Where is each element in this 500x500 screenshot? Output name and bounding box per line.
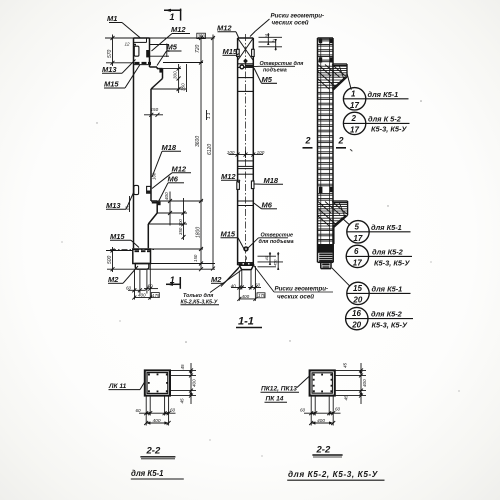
svg-text:20: 20 [352, 295, 362, 304]
svg-text:К5-3, К5-У: К5-3, К5-У [371, 124, 407, 133]
plate M6 lower (dark) [158, 202, 161, 206]
dim 100 100 (mid) [229, 151, 264, 158]
title для К5-1 [131, 469, 184, 479]
svg-text:M2: M2 [108, 275, 119, 284]
svg-text:17: 17 [353, 234, 362, 243]
svg-text:40: 40 [231, 283, 237, 288]
svg-text:M5: M5 [262, 75, 273, 84]
svg-text:500: 500 [107, 255, 113, 264]
section square K5-2/3/4 [310, 370, 335, 395]
svg-text:17: 17 [350, 101, 359, 110]
mid plates [237, 182, 240, 190]
svg-text:300: 300 [173, 71, 178, 79]
svg-text:для К5-1: для К5-1 [371, 223, 402, 232]
section square K5-1 [145, 370, 170, 395]
svg-text:M15: M15 [110, 232, 125, 241]
lower corbel hatch marks [152, 202, 157, 204]
svg-text:17: 17 [353, 258, 362, 267]
svg-text:1800: 1800 [196, 227, 202, 238]
svg-text:60: 60 [148, 284, 154, 289]
label M12 (left view lower) [152, 165, 191, 189]
label M5 (mid) [254, 68, 277, 84]
dim ticks near cap plates [150, 44, 170, 58]
bottom dims of middle view [231, 266, 261, 301]
svg-text:400: 400 [242, 294, 250, 299]
footer tip [135, 264, 149, 270]
svg-text:175: 175 [152, 293, 160, 298]
svg-text:M13: M13 [106, 201, 121, 210]
svg-text:17: 17 [350, 125, 359, 134]
svg-text:M18: M18 [264, 176, 279, 185]
svg-text:1-1: 1-1 [238, 316, 254, 328]
svg-text:M15: M15 [223, 47, 238, 56]
svg-text:45: 45 [180, 364, 185, 370]
svg-text:2: 2 [338, 136, 344, 146]
label M6 (mid) [254, 201, 277, 210]
cap plate M12 (dark) [146, 50, 150, 57]
svg-text:400: 400 [164, 192, 169, 200]
section mark 1 (top) [164, 9, 181, 22]
bottom dims of left section [139, 396, 176, 426]
svg-text:20: 20 [351, 321, 361, 330]
middle column edges [238, 38, 254, 265]
cell lines [238, 77, 254, 79]
hatch band below cap [135, 62, 152, 64]
svg-text:M12: M12 [221, 172, 236, 181]
svg-text:2-2: 2-2 [146, 446, 161, 457]
svg-text:150: 150 [151, 107, 159, 112]
svg-text:К5-3, К5-У: К5-3, К5-У [372, 321, 408, 330]
label M12 (top) [152, 25, 191, 51]
section mark 1 (bottom) [166, 275, 181, 289]
dim 500 (footer) [106, 247, 136, 272]
svg-text:400: 400 [362, 379, 367, 387]
svg-text:15: 15 [353, 284, 362, 293]
svg-text:450: 450 [273, 259, 277, 266]
svg-text:60: 60 [255, 282, 261, 287]
svg-text:для К5-1: для К5-1 [368, 90, 399, 99]
svg-text:400: 400 [191, 379, 196, 387]
svg-text:для К5-2: для К5-2 [371, 310, 403, 319]
svg-text:16: 16 [352, 309, 361, 318]
svg-text:100: 100 [257, 150, 265, 155]
dims 400 350 300 near lower corbel [168, 192, 186, 241]
svg-text:Только для: Только для [183, 293, 214, 299]
svg-text:2: 2 [305, 136, 311, 146]
svg-text:ПК12, ПК13: ПК12, ПК13 [261, 386, 297, 393]
svg-text:для К5-2: для К5-2 [372, 247, 404, 256]
svg-text:2-2: 2-2 [316, 445, 331, 456]
svg-text:60: 60 [126, 286, 132, 291]
striped block [319, 254, 332, 261]
svg-text:для К5-1: для К5-1 [131, 469, 164, 478]
lifting hole (bottom) [244, 247, 248, 251]
label M13 (lower) [106, 192, 134, 211]
svg-text:2: 2 [351, 114, 357, 123]
label M2 (left) [108, 266, 138, 284]
svg-text:Риски геометри-: Риски геометри- [271, 13, 325, 20]
ladder rungs upper [318, 39, 334, 61]
bottom dims of right section [304, 396, 341, 426]
svg-text:К5-3, К5-У: К5-3, К5-У [374, 258, 410, 267]
scan specks [61, 100, 459, 456]
svg-text:60: 60 [170, 407, 176, 412]
svg-text:6120: 6120 [207, 144, 213, 155]
svg-text:400: 400 [317, 418, 325, 424]
label M6 (left view) [159, 175, 185, 202]
svg-text:100: 100 [227, 150, 235, 155]
M6 cell lines [238, 200, 254, 202]
outer dim line [212, 35, 214, 269]
svg-text:M13: M13 [102, 65, 117, 74]
риски text (top right) [250, 13, 324, 37]
hatch band [238, 63, 254, 65]
dark embedded block [318, 244, 334, 253]
title 1-1 [236, 316, 262, 328]
label M18 (mid) [255, 176, 284, 185]
callout 15/20 [332, 268, 411, 305]
corbel 1 fill lines [318, 66, 347, 88]
label ЛК 11 [108, 381, 145, 390]
svg-text:350 300: 350 300 [178, 219, 183, 235]
footer centerline [110, 249, 156, 251]
svg-text:60: 60 [335, 407, 341, 412]
svg-text:12: 12 [125, 42, 131, 47]
corbel 2 fill lines [318, 204, 348, 226]
callout 6/17 [346, 245, 412, 267]
svg-text:400: 400 [138, 293, 146, 298]
label M1 [107, 14, 140, 38]
bottom tip of right column [318, 262, 334, 268]
svg-text:1: 1 [351, 89, 356, 98]
svg-text:для К5-2, К5-3, К5-У: для К5-2, К5-3, К5-У [288, 470, 379, 479]
dimension 570 (left of cap) [105, 35, 134, 67]
top plates [319, 39, 322, 43]
svg-text:M18: M18 [162, 143, 177, 152]
svg-text:M6: M6 [168, 175, 179, 184]
right column edges [318, 38, 334, 262]
footer block [133, 249, 151, 264]
left column outline [134, 38, 163, 248]
svg-text:M15: M15 [221, 230, 236, 239]
svg-text:5: 5 [355, 222, 360, 231]
svg-text:3600: 3600 [195, 136, 201, 147]
top cell X bracing [238, 38, 254, 61]
svg-text:6: 6 [354, 247, 359, 256]
label M2 (mid) [211, 267, 240, 287]
отверстие для подъема (top) [244, 61, 304, 74]
title 2-2 right [312, 445, 342, 458]
svg-text:M12: M12 [217, 24, 232, 33]
rungs below corbel 2 [318, 229, 334, 241]
svg-text:для подъема: для подъема [259, 239, 294, 245]
cap notch [134, 38, 147, 45]
svg-text:1: 1 [170, 275, 175, 285]
plates above corbel 2 [319, 187, 322, 193]
axis diamond mark [243, 58, 248, 63]
title 2-2 left [140, 446, 175, 459]
svg-text:350: 350 [181, 83, 186, 91]
cap plate M13 [134, 46, 139, 56]
только для text [181, 270, 243, 306]
svg-text:400: 400 [153, 418, 161, 424]
rebar dots [148, 374, 168, 393]
mid rungs [238, 161, 254, 174]
svg-text:M12: M12 [172, 165, 187, 174]
svg-text:ЛК 11: ЛК 11 [108, 383, 127, 390]
label M12 (mid top) [217, 24, 239, 39]
svg-text:300: 300 [198, 34, 206, 39]
svg-text:M1: M1 [107, 14, 117, 23]
svg-text:M12: M12 [171, 25, 186, 34]
svg-text:M2: M2 [211, 275, 222, 284]
label M15 (lower) [110, 232, 139, 248]
svg-text:150: 150 [193, 254, 198, 262]
footer hatch band [135, 250, 151, 252]
svg-text:60: 60 [300, 408, 306, 413]
label ПК12 ПК13 ПК14 [261, 376, 311, 403]
svg-text:Риски геометри-: Риски геометри- [275, 286, 329, 293]
M15 plates on edges [237, 49, 240, 56]
label M15 (mid lower) [221, 230, 244, 249]
svg-text:подъема: подъема [263, 68, 287, 74]
corbel 1 [332, 64, 347, 90]
callout 16/20 [346, 307, 413, 329]
rebar dots right section [313, 374, 333, 393]
callout 2/17 [343, 112, 409, 134]
bottom hatch band [238, 262, 254, 264]
corbel 2 diagonal hatch [318, 202, 347, 227]
svg-text:175: 175 [258, 293, 266, 298]
svg-text:ПК 14: ПК 14 [266, 396, 284, 403]
callout 5/17 [342, 218, 411, 244]
label M12 (mid lower) [221, 172, 240, 183]
left edge plate M13 (lower) [134, 185, 139, 194]
section marks 2-2 on right view [303, 136, 353, 151]
centerline [245, 34, 247, 268]
svg-text:570: 570 [107, 49, 113, 58]
label M15 (upper) [104, 65, 140, 89]
corbel 1 diagonal hatch [318, 65, 346, 90]
right dims of right section [335, 363, 366, 404]
svg-text:720: 720 [195, 44, 201, 53]
label M18 (left view) [152, 143, 181, 177]
svg-text:45: 45 [343, 362, 348, 368]
right-side dimension chains of left view [147, 35, 215, 272]
label M13 (top) [102, 60, 136, 75]
отверстие для подъема (bottom) [248, 233, 294, 249]
svg-text:1: 1 [170, 12, 175, 22]
corbel 2 [333, 201, 348, 227]
label M5 (top) [157, 43, 182, 66]
bottom tip [239, 265, 253, 269]
svg-text:100: 100 [152, 172, 157, 180]
svg-text:ческих осей: ческих осей [272, 20, 309, 27]
lifting hole (top) [240, 65, 244, 69]
svg-text:45: 45 [180, 398, 185, 404]
inner verticals [321, 38, 330, 244]
dim 300 (corbel) [163, 64, 182, 93]
ladder rungs main [318, 92, 334, 200]
plate M5 on ledge (dark) [159, 68, 162, 72]
plates above corbel 1 [319, 57, 322, 62]
риски dims (bottom right of mid) [258, 252, 284, 270]
svg-text:M6: M6 [262, 201, 273, 210]
right edge plate M12 (lower) [147, 186, 151, 193]
title для К5-2 К5-3 К5-У [287, 470, 384, 480]
svg-text:M15: M15 [104, 80, 119, 89]
label M15 (mid top) [223, 47, 239, 56]
bottom dims of left view [128, 264, 158, 300]
svg-text:60: 60 [136, 408, 142, 413]
svg-text:ческих осей: ческих осей [277, 294, 314, 301]
svg-text:45: 45 [344, 395, 349, 401]
риски dims (top right) [259, 33, 283, 51]
inner dim line [200, 35, 202, 269]
callout 1/17 [343, 74, 408, 111]
svg-text:для К 5-2: для К 5-2 [368, 114, 402, 123]
риски text (bottom) [253, 265, 333, 301]
right dims of left section [170, 363, 196, 404]
svg-text:для К5-1: для К5-1 [372, 284, 403, 293]
